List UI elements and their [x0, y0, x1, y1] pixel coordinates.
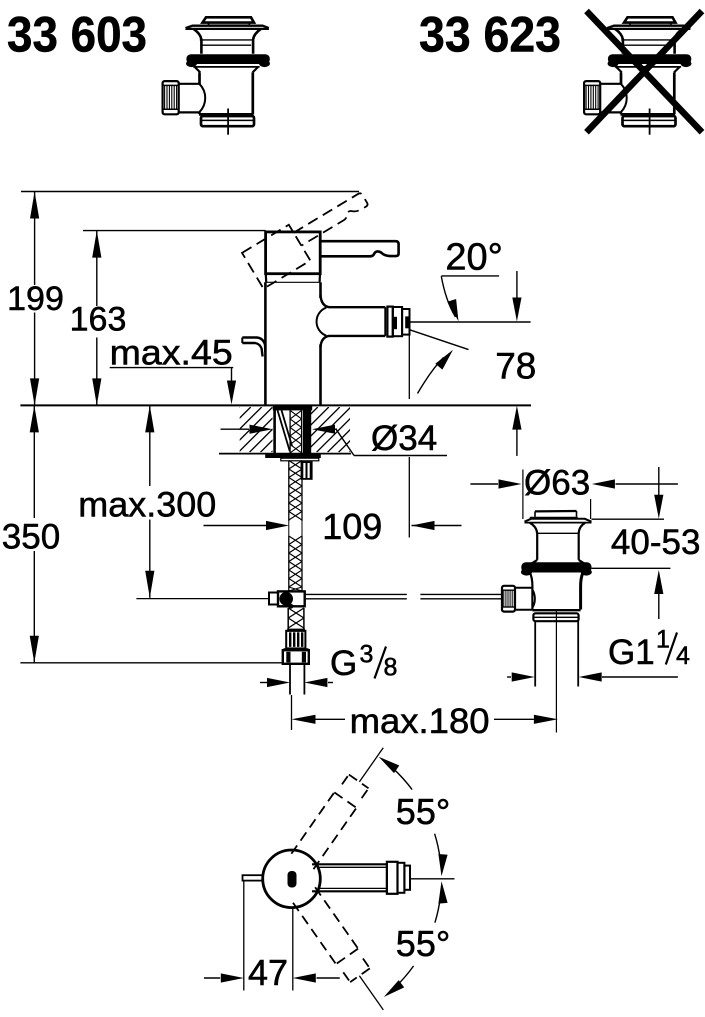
G3/8 nut: [283, 650, 309, 664]
top view spout: [312, 862, 410, 894]
drain flare: [529, 560, 588, 566]
pop-up waste icon (right, crossed out): [584, 17, 691, 134]
dashed spout rotated up 55: [291, 739, 393, 869]
deck hatching right: [262, 407, 439, 452]
connector collar: [287, 629, 305, 631]
dimension 78: [495, 271, 536, 456]
rod reference line left: [136, 598, 269, 600]
reference line top of handle (163): [83, 230, 266, 232]
drain slip nut: [533, 613, 578, 621]
svg-text:55°: 55°: [396, 923, 450, 964]
svg-text:20°: 20°: [445, 236, 502, 278]
dimension 40-53: [611, 467, 701, 619]
drain body: [530, 573, 583, 611]
dimension 199: [7, 192, 64, 406]
faucet body right side: [319, 282, 322, 405]
dimension max.45: [110, 333, 236, 404]
svg-text:max.180: max.180: [350, 702, 490, 741]
pop-up waste icon (included): [163, 17, 270, 134]
dimension Ø63: [470, 463, 678, 519]
drain centerline: [555, 611, 557, 733]
pull rod inside shank: [278, 410, 293, 451]
20 degree slant line: [410, 330, 469, 350]
G3/8 pipe: [290, 664, 304, 695]
drain funnel: [530, 523, 585, 560]
product code 33 603: [7, 7, 147, 63]
svg-text:Ø63: Ø63: [524, 463, 590, 502]
faucet neck joint: [266, 274, 320, 283]
svg-text:G1: G1: [608, 633, 655, 672]
extension line below aerator: [408, 330, 410, 538]
spout ball root: [317, 308, 327, 336]
dimension max.180: [292, 695, 558, 741]
gasket bottom reference line: [592, 567, 671, 569]
faucet base gasket: [273, 406, 312, 411]
flange top reference line: [592, 518, 665, 520]
top view spout centerline: [410, 878, 455, 880]
product code 33 623: [419, 7, 561, 63]
20 deg arc upper: [441, 276, 458, 321]
20 deg arc lower: [418, 350, 454, 394]
svg-text:33 603: 33 603: [7, 7, 147, 63]
dimension G1 1/4: [507, 626, 690, 682]
dashed spout rotated down 55: [293, 887, 395, 1017]
drain tail pipe: [535, 621, 578, 686]
shank outer walls: [275, 407, 312, 454]
svg-text:109: 109: [322, 506, 382, 547]
label 55 lower: [396, 923, 450, 964]
top view pull rod: [243, 875, 264, 880]
svg-text:Ø34: Ø34: [371, 419, 437, 458]
spout bottom edge: [321, 336, 386, 347]
ribbed connector: [286, 631, 305, 649]
svg-text:3: 3: [360, 641, 374, 669]
dimension 350: [2, 405, 60, 662]
faucet body left side: [264, 282, 267, 405]
svg-text:G: G: [330, 644, 357, 683]
faucet lever handle: [320, 241, 398, 256]
55 deg arc lower: [384, 881, 448, 997]
threaded shank in deck: [290, 410, 302, 453]
threaded rod lower: [289, 536, 302, 591]
svg-text:1: 1: [656, 626, 670, 654]
connector step: [284, 648, 309, 650]
mounting nut: [301, 461, 313, 480]
cross-out X over right icon: [587, 11, 703, 132]
55 deg arc upper: [379, 757, 448, 877]
drain side knob: [502, 586, 515, 612]
threaded connector: [288, 608, 304, 629]
dimension 109: [204, 506, 462, 547]
svg-text:33 623: 33 623: [419, 7, 561, 63]
svg-text:max.300: max.300: [78, 486, 216, 525]
top view cartridge mark: [288, 871, 297, 888]
counter top line: [20, 404, 531, 406]
svg-text:4: 4: [676, 642, 690, 670]
label 20 deg: [441, 236, 503, 278]
dimension G3/8: [260, 641, 397, 688]
label 55 upper: [396, 791, 450, 832]
drain gasket: [521, 562, 592, 575]
dimension 163: [70, 231, 127, 406]
faucet cartridge head: [266, 232, 321, 274]
spout top edge: [321, 295, 386, 307]
svg-text:8: 8: [384, 654, 398, 682]
counter bottom line: [219, 453, 351, 455]
horizontal pop-up rod: [305, 594, 501, 598]
svg-text:max.45: max.45: [110, 333, 233, 372]
dimension 47: [204, 881, 340, 993]
pop-up pull rod knob: [242, 338, 265, 357]
svg-text:55°: 55°: [396, 791, 450, 832]
threaded rod upper: [289, 461, 302, 522]
dimension max.300: [78, 405, 216, 597]
svg-text:47: 47: [248, 952, 288, 993]
deck hatching left: [195, 407, 361, 452]
pop-up linkage joint: [269, 591, 305, 608]
reference line top of lifted handle (199): [21, 191, 359, 193]
drain flange lip: [525, 519, 592, 523]
rod gap lines: [289, 521, 302, 536]
mounting washer: [265, 456, 321, 461]
svg-text:40-53: 40-53: [611, 523, 701, 562]
dashed handle in raised position: [242, 184, 378, 288]
svg-text:78: 78: [495, 346, 536, 387]
svg-text:350: 350: [2, 518, 60, 557]
top view faucet body circle: [263, 850, 321, 908]
dimension Ø34: [221, 419, 448, 458]
drain plug cap: [530, 511, 578, 518]
svg-text:199: 199: [7, 280, 64, 318]
spout axis line: [410, 321, 531, 323]
knob stem: [515, 588, 535, 610]
aerator rings: [385, 307, 409, 337]
350 bottom reference line: [20, 662, 282, 664]
